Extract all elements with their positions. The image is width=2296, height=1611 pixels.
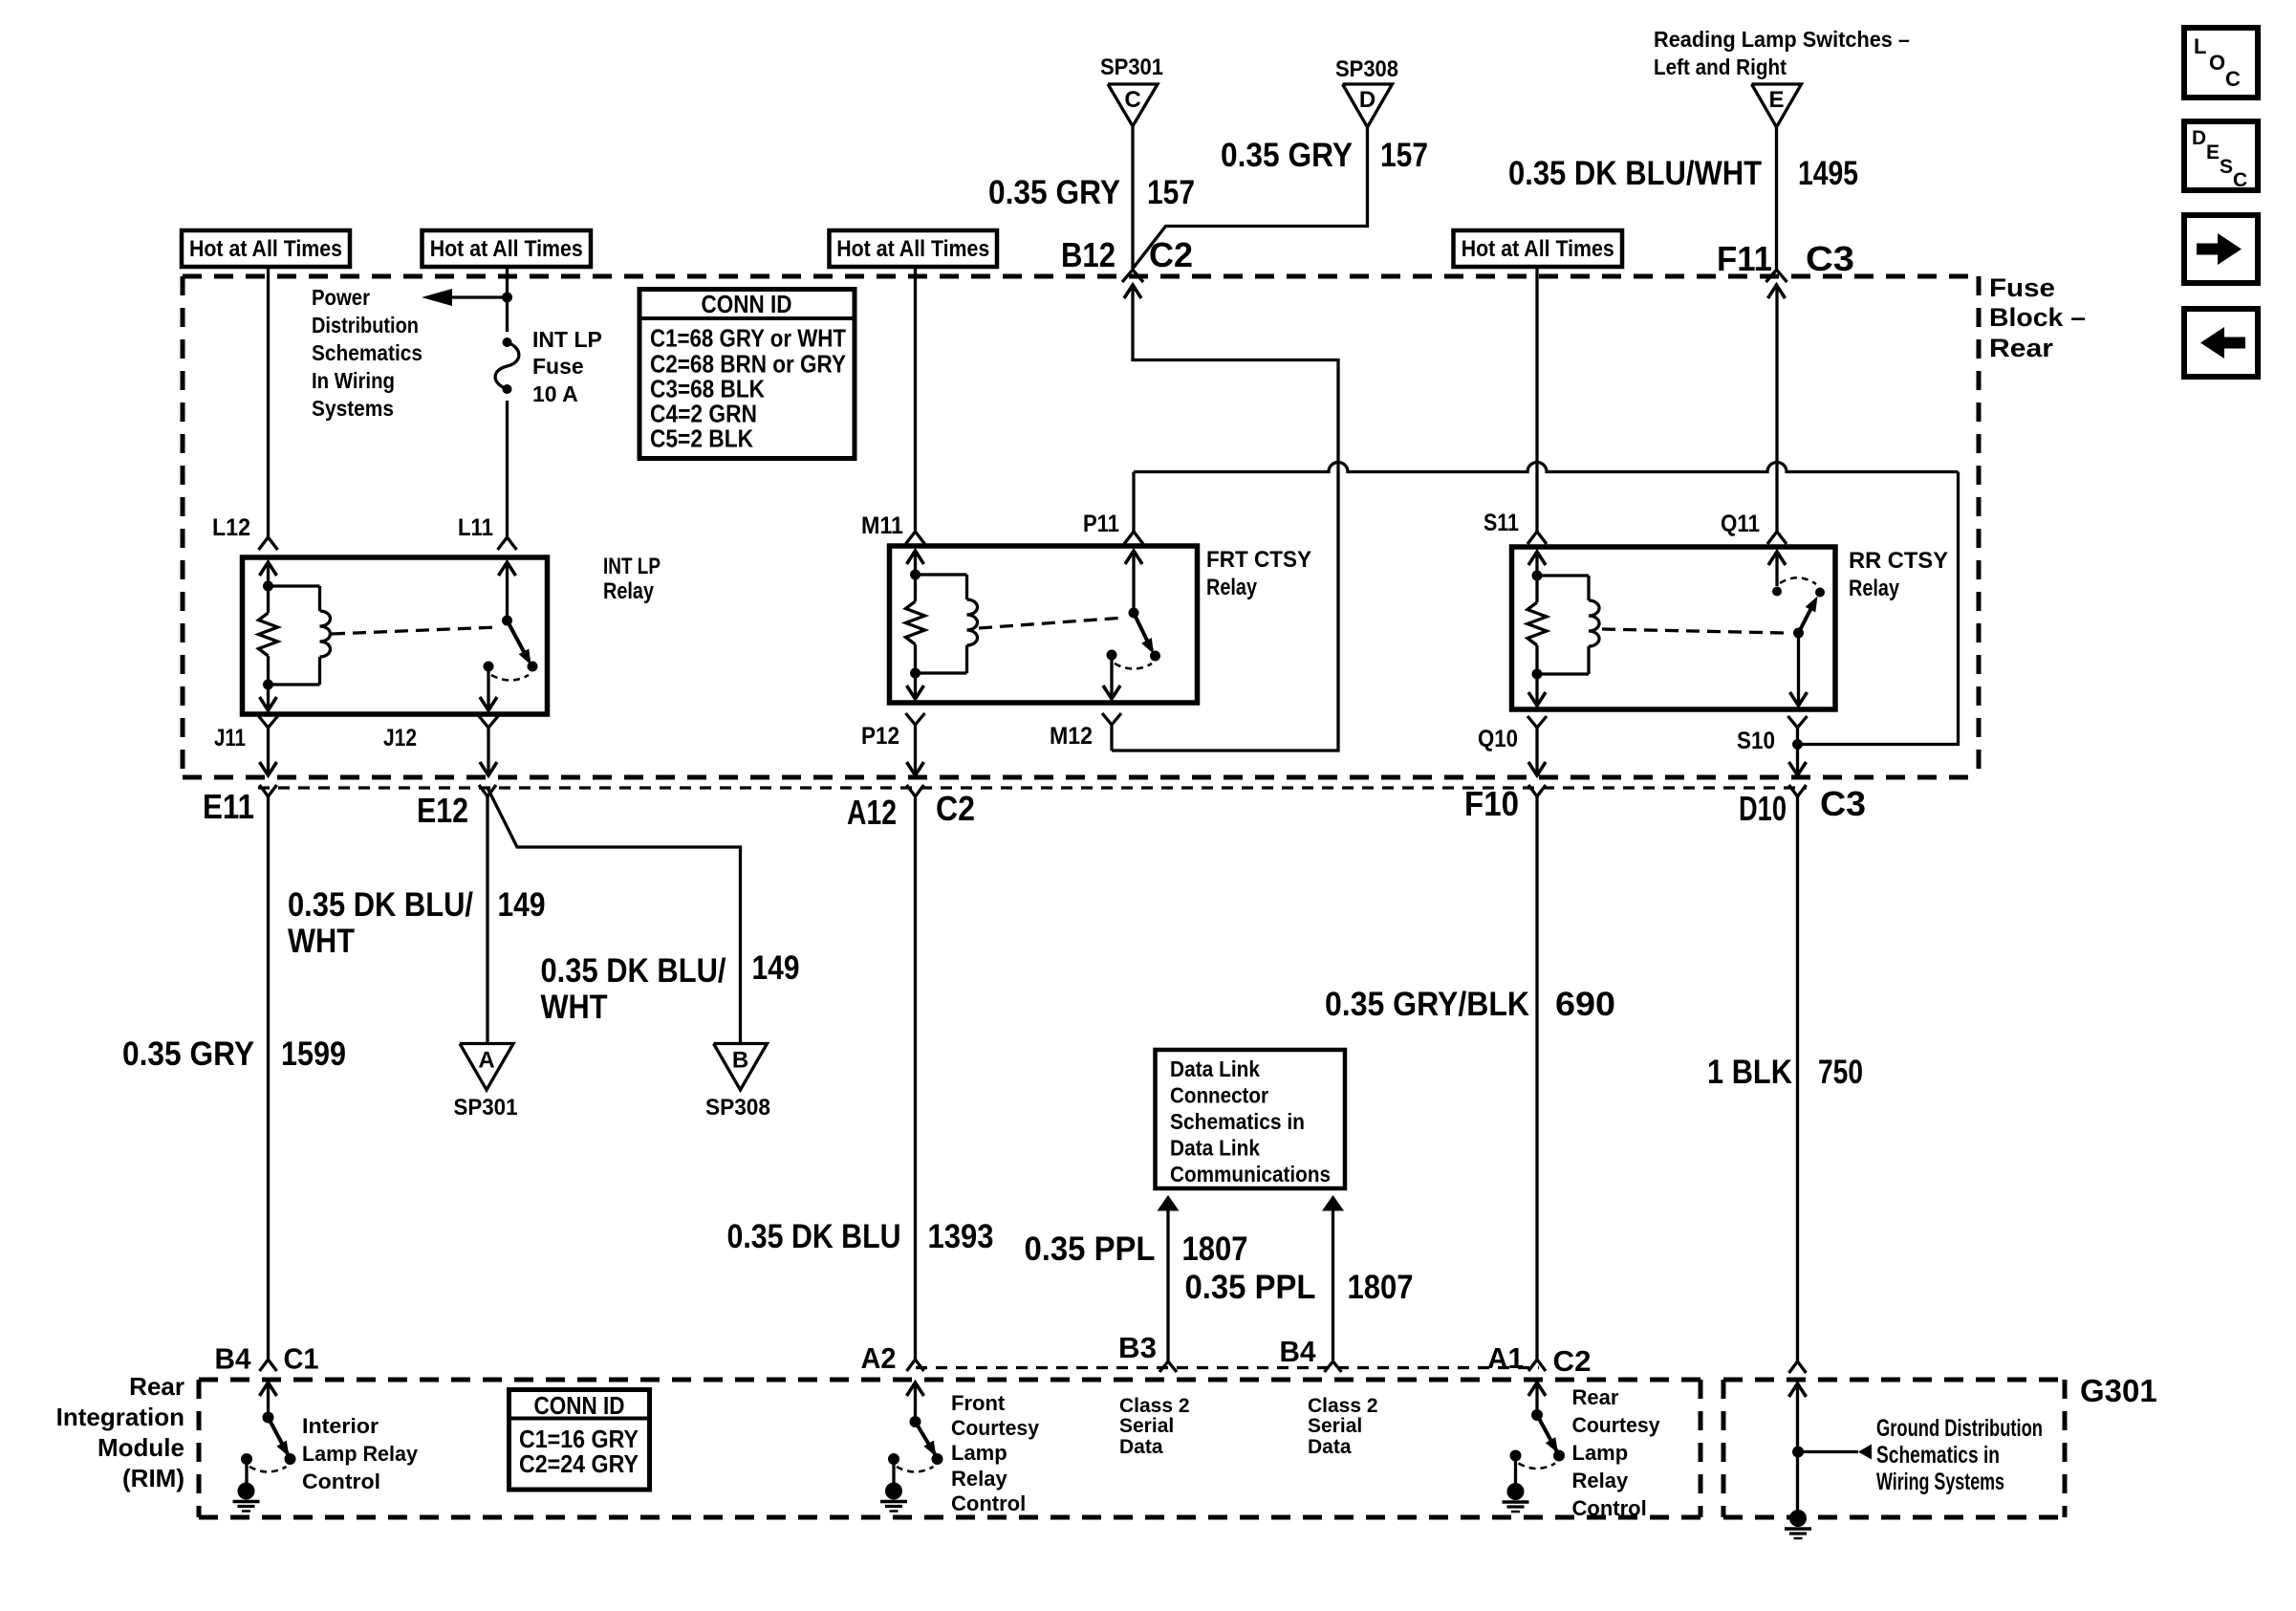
svg-text:Fuse: Fuse	[1989, 273, 2055, 302]
svg-text:Reading Lamp Switches –: Reading Lamp Switches –	[1654, 27, 1910, 52]
wire class 2 serial data B3 (0.35 PPL 1807)	[1158, 1195, 1180, 1211]
svg-text:0.35 GRY/BLK: 0.35 GRY/BLK	[1325, 986, 1529, 1023]
svg-text:B4: B4	[1280, 1335, 1317, 1368]
in-line connector dashed line (E/A/F/D row)	[258, 786, 1807, 789]
ground block G301 dashed enclosure	[1723, 1378, 2065, 1382]
svg-text:0.35 DK BLU/: 0.35 DK BLU/	[541, 952, 726, 990]
svg-text:Rear: Rear	[1989, 334, 2054, 362]
CONN ID table (fuse block)	[639, 290, 855, 459]
relay RR CTSY	[1512, 547, 1836, 709]
wire E12 branch to splice B	[487, 788, 741, 1044]
svg-text:Front: Front	[951, 1391, 1006, 1415]
svg-text:Schematics in: Schematics in	[1170, 1109, 1305, 1134]
svg-text:Ground Distribution: Ground Distribution	[1876, 1415, 2043, 1442]
svg-text:Relay: Relay	[951, 1467, 1007, 1491]
svg-text:C1=68 GRY or WHT: C1=68 GRY or WHT	[650, 324, 846, 353]
svg-text:D: D	[2192, 127, 2206, 149]
svg-text:1495: 1495	[1798, 155, 1858, 192]
svg-text:C2: C2	[1149, 235, 1193, 274]
svg-text:Hot at All Times: Hot at All Times	[1462, 236, 1614, 262]
wire class 2 serial data B4 (0.35 PPL 1807)	[1322, 1195, 1344, 1211]
svg-text:D: D	[1359, 87, 1375, 113]
connector at G301 boundary	[1789, 1361, 1807, 1373]
relay FRT CTSY	[890, 546, 1198, 703]
svg-text:Class 2: Class 2	[1308, 1395, 1378, 1417]
junction on fuse feed	[502, 293, 512, 303]
svg-text:10 A: 10 A	[532, 381, 578, 406]
svg-text:Wiring Systems: Wiring Systems	[1876, 1469, 2004, 1495]
RIM connector dashed line (A2/B3/B4/A1 row)	[916, 1366, 1539, 1369]
svg-text:CONN ID: CONN ID	[702, 290, 792, 318]
wire E11 to B4 (0.35 GRY 1599)	[267, 796, 270, 1360]
relay INT LP	[243, 557, 548, 714]
legend box LOC	[2184, 28, 2258, 98]
svg-text:F11: F11	[1717, 239, 1772, 278]
svg-text:O: O	[2209, 51, 2225, 75]
svg-text:Connector: Connector	[1170, 1083, 1268, 1108]
relay INT LP actuator dashed link	[332, 627, 498, 634]
svg-text:Data: Data	[1119, 1436, 1163, 1458]
svg-text:Rear: Rear	[1572, 1385, 1619, 1409]
svg-text:149: 149	[498, 886, 546, 924]
svg-text:C: C	[2225, 67, 2241, 91]
svg-text:M12: M12	[1050, 723, 1093, 750]
svg-text:Data: Data	[1308, 1436, 1352, 1458]
relay FRT CTSY actuator dashed link	[979, 618, 1124, 628]
svg-text:L11: L11	[458, 514, 493, 541]
svg-text:P12: P12	[861, 723, 899, 750]
relay RR CTSY switch	[1768, 552, 1786, 565]
svg-text:E: E	[1768, 87, 1784, 113]
svg-text:B3: B3	[1118, 1331, 1157, 1364]
svg-text:1599: 1599	[281, 1035, 346, 1073]
svg-text:E: E	[2206, 142, 2220, 163]
svg-text:SP301: SP301	[454, 1095, 518, 1121]
wire bus left leg to P11	[1132, 472, 1135, 533]
wire F11 to Q11	[1775, 285, 1778, 532]
bus wire P11 to right leg	[1134, 463, 1959, 472]
svg-text:Class 2: Class 2	[1119, 1395, 1190, 1417]
svg-text:Serial: Serial	[1119, 1415, 1174, 1437]
svg-text:Relay: Relay	[603, 578, 655, 604]
wire E12 to splice A (0.35 DK BLU/WHT 149)	[486, 796, 488, 1044]
svg-text:SP308: SP308	[1335, 56, 1398, 82]
svg-text:Serial: Serial	[1308, 1415, 1362, 1437]
svg-text:Hot at All Times: Hot at All Times	[836, 236, 989, 262]
svg-text:Control: Control	[1572, 1496, 1647, 1520]
legend box right arrow	[2184, 215, 2258, 283]
front courtesy lamp relay control switch	[907, 1382, 924, 1396]
svg-text:D10: D10	[1739, 789, 1787, 828]
svg-text:FRT CTSY: FRT CTSY	[1206, 547, 1311, 573]
CONN ID table (RIM)	[509, 1390, 650, 1491]
svg-text:B12: B12	[1061, 235, 1116, 274]
svg-text:0.35 DK BLU/WHT: 0.35 DK BLU/WHT	[1508, 155, 1762, 192]
ground G301 symbol	[1789, 1510, 1807, 1527]
svg-text:WHT: WHT	[541, 989, 608, 1026]
svg-text:A2: A2	[861, 1341, 897, 1375]
reading lamp switches triangle E	[1752, 84, 1802, 127]
svg-text:Lamp: Lamp	[1572, 1441, 1629, 1465]
wire hot feed 4 (S11)	[1535, 267, 1538, 532]
legend box DESC	[2184, 121, 2258, 190]
svg-text:E12: E12	[417, 791, 468, 830]
svg-text:A: A	[478, 1048, 494, 1074]
relay INT LP switch	[499, 562, 516, 576]
power distribution schematics arrow	[452, 295, 508, 298]
svg-text:Hot at All Times: Hot at All Times	[430, 236, 583, 262]
svg-text:Power: Power	[312, 285, 370, 310]
svg-text:SP301: SP301	[1100, 54, 1163, 80]
svg-text:149: 149	[752, 949, 800, 987]
svg-text:0.35 GRY: 0.35 GRY	[988, 174, 1120, 211]
interior lamp relay control switch	[260, 1382, 277, 1396]
ground (interior lamp relay control)	[238, 1483, 255, 1500]
svg-text:A1: A1	[1487, 1341, 1524, 1375]
power feed box 2: Hot at All Times	[422, 230, 592, 267]
svg-text:157: 157	[1147, 174, 1195, 211]
svg-text:F10: F10	[1464, 784, 1519, 823]
wire hot feed 1 (L12)	[267, 267, 270, 537]
svg-text:1807: 1807	[1182, 1230, 1248, 1268]
svg-text:Module: Module	[97, 1433, 184, 1462]
wire A12 to A2 (0.35 DK BLU 1393)	[914, 796, 917, 1360]
power feed box 3: Hot at All Times	[830, 230, 998, 267]
rear courtesy lamp relay control switch	[1528, 1382, 1546, 1396]
bus right leg down to S10 junction	[1798, 472, 1959, 745]
svg-text:INT LP: INT LP	[532, 327, 602, 352]
svg-text:690: 690	[1555, 986, 1615, 1023]
svg-text:Control: Control	[302, 1469, 380, 1493]
wire hot feed 3 (M11)	[914, 269, 917, 532]
svg-text:Hot at All Times: Hot at All Times	[189, 236, 342, 262]
splice SP301 bottom triangle A	[460, 1044, 513, 1091]
svg-text:S: S	[2220, 156, 2233, 178]
svg-text:Q10: Q10	[1478, 726, 1518, 752]
wire hot feed 2 (L11 fuse feed)	[506, 267, 509, 537]
svg-text:Relay: Relay	[1849, 576, 1900, 601]
svg-text:C: C	[2233, 169, 2247, 191]
svg-text:Lamp Relay: Lamp Relay	[302, 1442, 419, 1466]
svg-text:Relay: Relay	[1206, 575, 1258, 600]
junction dot at S10 wire	[1792, 739, 1803, 750]
svg-text:J12: J12	[383, 725, 417, 751]
svg-text:INT LP: INT LP	[603, 554, 661, 579]
svg-text:157: 157	[1380, 137, 1428, 174]
ground (rear courtesy lamp relay control)	[1507, 1483, 1525, 1500]
wire D10 to G301 (1 BLK 750)	[1796, 796, 1799, 1361]
ground distribution schematics arrow	[1798, 1450, 1858, 1453]
splice SP308 bottom triangle B	[714, 1044, 768, 1091]
wire SP301 drop (0.35 GRY 157)	[1131, 126, 1134, 270]
svg-text:Interior: Interior	[302, 1414, 379, 1438]
svg-text:1807: 1807	[1348, 1269, 1414, 1306]
fuse block - rear dashed enclosure	[183, 274, 1979, 279]
svg-text:C3: C3	[1820, 784, 1866, 823]
svg-text:Data Link: Data Link	[1170, 1136, 1260, 1161]
wire B12 branch down/right/down to M12	[1112, 285, 1338, 751]
svg-text:J11: J11	[214, 725, 246, 751]
svg-text:Systems: Systems	[312, 396, 394, 421]
svg-text:C1: C1	[284, 1342, 319, 1376]
svg-text:RR CTSY: RR CTSY	[1849, 548, 1948, 574]
svg-text:Fuse: Fuse	[532, 354, 584, 379]
svg-text:B4: B4	[215, 1342, 252, 1376]
svg-text:G301: G301	[2080, 1373, 2157, 1408]
svg-text:1393: 1393	[928, 1218, 994, 1255]
power feed box 4: Hot at All Times	[1454, 230, 1623, 267]
data link connector reference box	[1156, 1050, 1346, 1188]
svg-text:0.35 PPL: 0.35 PPL	[1025, 1230, 1156, 1268]
svg-text:750: 750	[1818, 1054, 1863, 1091]
svg-text:Schematics in: Schematics in	[1876, 1442, 2000, 1469]
svg-text:E11: E11	[203, 787, 254, 826]
junction dot G301	[1792, 1447, 1804, 1458]
svg-text:C3: C3	[1806, 239, 1854, 278]
svg-text:CONN ID: CONN ID	[534, 1391, 625, 1420]
wire G301 ground drop	[1789, 1383, 1807, 1397]
svg-text:In Wiring: In Wiring	[312, 368, 395, 393]
svg-text:0.35 DK BLU: 0.35 DK BLU	[727, 1218, 901, 1255]
svg-text:Lamp: Lamp	[951, 1441, 1007, 1465]
svg-text:0.35 GRY: 0.35 GRY	[122, 1035, 254, 1073]
power feed box 1: Hot at All Times	[182, 230, 350, 267]
svg-text:0.35 GRY: 0.35 GRY	[1221, 137, 1353, 174]
svg-text:C2: C2	[936, 789, 975, 828]
svg-text:B: B	[732, 1048, 748, 1074]
wire reading lamp drop (0.35 DK BLU/WHT 1495)	[1775, 127, 1778, 270]
wire F10 to A1 (0.35 GRY/BLK 690)	[1535, 796, 1538, 1360]
svg-text:P11: P11	[1083, 511, 1119, 537]
svg-text:Q11: Q11	[1721, 511, 1760, 537]
svg-text:M11: M11	[861, 512, 903, 539]
svg-text:S11: S11	[1484, 510, 1519, 536]
svg-text:Courtesy: Courtesy	[1572, 1413, 1661, 1437]
relay FRT CTSY switch	[1125, 551, 1142, 564]
svg-text:C5=2 BLK: C5=2 BLK	[650, 425, 753, 453]
ground (front courtesy lamp relay control)	[885, 1483, 902, 1500]
legend box left arrow	[2184, 309, 2258, 377]
svg-text:Rear: Rear	[129, 1372, 184, 1401]
svg-text:Block –: Block –	[1989, 303, 2086, 332]
svg-text:L12: L12	[212, 514, 250, 541]
svg-text:Integration: Integration	[56, 1403, 184, 1431]
svg-text:0.35 PPL: 0.35 PPL	[1185, 1269, 1316, 1306]
svg-text:WHT: WHT	[288, 923, 355, 960]
svg-text:S10: S10	[1737, 728, 1775, 754]
svg-text:C2=24 GRY: C2=24 GRY	[519, 1449, 639, 1478]
svg-text:0.35 DK BLU/: 0.35 DK BLU/	[288, 886, 473, 924]
fuse INT LP 10A symbol	[496, 332, 518, 401]
svg-text:Data Link: Data Link	[1170, 1056, 1260, 1081]
svg-text:Control: Control	[951, 1491, 1026, 1515]
svg-text:C2: C2	[1553, 1344, 1592, 1378]
svg-text:L: L	[2194, 34, 2206, 58]
svg-text:Schematics: Schematics	[312, 340, 422, 365]
svg-text:Left and Right: Left and Right	[1654, 54, 1787, 79]
rear integration module dashed enclosure	[199, 1378, 1700, 1382]
svg-text:A12: A12	[847, 793, 897, 832]
svg-text:Communications: Communications	[1170, 1162, 1331, 1186]
svg-text:Relay: Relay	[1572, 1469, 1629, 1492]
svg-text:C: C	[1124, 87, 1140, 113]
svg-text:(RIM): (RIM)	[122, 1464, 184, 1492]
svg-text:Courtesy: Courtesy	[951, 1416, 1040, 1440]
relay RR CTSY actuator dashed link	[1602, 629, 1784, 633]
svg-text:Distribution: Distribution	[312, 313, 419, 337]
svg-text:SP308: SP308	[705, 1095, 770, 1121]
svg-text:1 BLK: 1 BLK	[1707, 1054, 1792, 1091]
wire SP308 drop to B12 (0.35 GRY 157)	[1133, 127, 1368, 269]
